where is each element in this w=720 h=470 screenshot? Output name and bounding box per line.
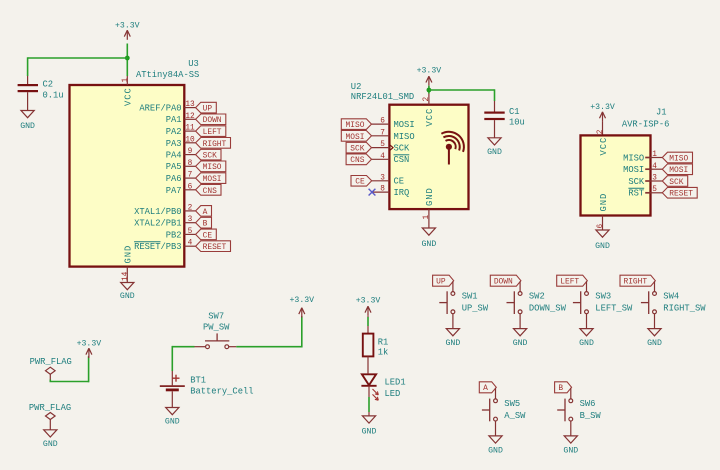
ground under SW1 <box>446 329 459 336</box>
svg-text:UP: UP <box>203 105 213 114</box>
svg-text:MISO: MISO <box>623 153 644 163</box>
wire <box>570 421 572 436</box>
svg-text:GND: GND <box>124 245 134 264</box>
wire <box>654 281 656 291</box>
svg-text:PA2: PA2 <box>166 127 182 137</box>
label RESET <box>662 187 697 198</box>
svg-text:C2: C2 <box>43 80 54 90</box>
U3 pin 13 AREF/PA0 <box>184 107 195 109</box>
svg-text:MOSI: MOSI <box>394 120 415 130</box>
svg-text:GND: GND <box>579 339 594 348</box>
svg-text:CSN: CSN <box>394 155 410 165</box>
J1 pin 5 RST <box>651 192 663 194</box>
U3 pin 14 GND <box>126 267 128 283</box>
label CE <box>351 176 372 187</box>
ground under J1 <box>596 230 609 237</box>
svg-text:A: A <box>203 208 208 217</box>
svg-text:GND: GND <box>425 187 435 206</box>
svg-text:MOSI: MOSI <box>669 166 688 175</box>
svg-text:R1: R1 <box>378 337 389 347</box>
U3 pin 9 PA4 <box>184 154 195 156</box>
svg-text:B_SW: B_SW <box>580 411 602 421</box>
U3 pin 6 PA7 <box>184 189 195 191</box>
svg-text:GND: GND <box>362 427 377 436</box>
svg-text:SW6: SW6 <box>580 399 596 409</box>
svg-text:PA4: PA4 <box>166 151 182 161</box>
wire <box>570 388 572 399</box>
label A <box>196 206 212 217</box>
svg-text:SCK: SCK <box>628 177 645 187</box>
label DOWN <box>490 275 521 286</box>
svg-text:9: 9 <box>188 148 193 156</box>
svg-text:+3.3V: +3.3V <box>356 296 381 305</box>
svg-text:4: 4 <box>380 153 385 161</box>
IC U3 ATtiny84A-SS body <box>70 85 185 267</box>
junction <box>125 56 130 61</box>
ground under SW5 <box>489 436 502 443</box>
svg-text:GND: GND <box>595 242 610 251</box>
wire <box>28 57 128 59</box>
label MISO <box>662 152 692 163</box>
svg-text:VCC: VCC <box>599 137 609 156</box>
U2 pin 2 VCC <box>428 94 430 105</box>
svg-text:+3.3V: +3.3V <box>417 67 442 76</box>
svg-text:IRQ: IRQ <box>394 188 410 198</box>
U3 pin 11 PA2 <box>184 130 195 132</box>
svg-text:6: 6 <box>597 224 605 229</box>
svg-text:CNS: CNS <box>350 156 364 165</box>
label CE <box>196 229 217 240</box>
svg-text:PA1: PA1 <box>166 115 182 125</box>
svg-text:PA6: PA6 <box>166 174 182 184</box>
svg-text:SCK: SCK <box>669 178 683 187</box>
label LEFT <box>557 275 588 286</box>
svg-text:PA7: PA7 <box>166 186 182 196</box>
svg-text:4: 4 <box>188 240 193 248</box>
U2 pin 3 CE <box>372 180 390 182</box>
U2 pin 6 MOSI <box>372 123 390 125</box>
svg-text:5: 5 <box>380 141 385 149</box>
svg-text:SW1: SW1 <box>462 292 478 302</box>
wire <box>367 317 369 326</box>
J1 pin 4 MOSI <box>651 168 663 170</box>
svg-text:3: 3 <box>188 216 193 224</box>
svg-text:10u: 10u <box>509 117 525 127</box>
svg-text:C1: C1 <box>509 107 520 117</box>
svg-text:SW4: SW4 <box>663 292 679 302</box>
svg-text:SW5: SW5 <box>504 399 520 409</box>
svg-text:3: 3 <box>380 174 385 182</box>
svg-text:B: B <box>203 220 208 229</box>
svg-text:RESET: RESET <box>669 190 693 199</box>
wire <box>495 421 497 436</box>
label SCK <box>662 176 687 187</box>
svg-text:14: 14 <box>122 271 130 281</box>
U2 pin 1 GND <box>428 209 430 228</box>
label CNS <box>346 154 371 165</box>
svg-text:B: B <box>558 384 563 393</box>
wire <box>172 346 194 348</box>
label MOSI <box>662 164 692 175</box>
wire <box>126 44 128 77</box>
ground under LED1 <box>362 416 375 423</box>
battery BT1 Battery_Cell <box>171 371 173 385</box>
svg-text:GND: GND <box>20 122 35 131</box>
ground under PWR_FLAG <box>44 430 57 437</box>
wire <box>586 314 588 329</box>
switch SW1 UP_SW <box>446 291 448 314</box>
U2 pin 5 SCK <box>372 147 390 149</box>
svg-text:2: 2 <box>423 97 431 102</box>
svg-text:5: 5 <box>652 186 657 194</box>
svg-text:LED1: LED1 <box>385 378 406 388</box>
U3 pin 10 PA3 <box>184 142 195 144</box>
svg-text:GND: GND <box>422 240 437 249</box>
svg-text:A: A <box>483 384 488 393</box>
label SCK <box>346 142 371 153</box>
svg-text:5: 5 <box>188 228 193 236</box>
U3 pin 3 XTAL2/PB1 <box>184 222 195 224</box>
svg-text:MISO: MISO <box>346 121 365 130</box>
svg-text:CE: CE <box>355 178 365 187</box>
svg-text:6: 6 <box>188 183 193 191</box>
ground under SW6 <box>564 436 577 443</box>
antenna symbol in U2 <box>446 144 452 150</box>
svg-text:MISO: MISO <box>669 154 688 163</box>
svg-text:DOWN_SW: DOWN_SW <box>529 304 567 314</box>
svg-text:RIGHT: RIGHT <box>203 140 227 149</box>
svg-text:UP_SW: UP_SW <box>462 304 489 314</box>
svg-text:PA3: PA3 <box>166 139 182 149</box>
svg-text:UP: UP <box>436 278 446 287</box>
svg-text:13: 13 <box>185 101 195 109</box>
wire <box>519 314 521 329</box>
wire <box>368 386 370 397</box>
svg-text:CE: CE <box>203 231 213 240</box>
ground under BT1 <box>166 408 179 415</box>
label CNS <box>196 185 221 196</box>
svg-text:XTAL1/PB0: XTAL1/PB0 <box>134 207 182 217</box>
ground under C1 <box>488 138 501 145</box>
svg-text:SCK: SCK <box>203 152 217 161</box>
svg-text:RIGHT_SW: RIGHT_SW <box>663 304 706 314</box>
label B <box>196 217 212 228</box>
svg-text:RST: RST <box>628 189 644 199</box>
wire <box>586 281 588 291</box>
U2 pin 8 IRQ <box>373 191 390 193</box>
svg-text:8: 8 <box>380 186 385 194</box>
svg-text:GND: GND <box>43 440 58 449</box>
svg-text:+3.3V: +3.3V <box>290 296 315 305</box>
svg-text:MOSI: MOSI <box>623 165 644 175</box>
svg-text:MOSI: MOSI <box>203 175 222 184</box>
svg-text:CE: CE <box>394 177 405 187</box>
svg-text:AREF/PA0: AREF/PA0 <box>139 104 181 114</box>
label UP <box>196 102 217 113</box>
ground under SW3 <box>580 329 593 336</box>
J1 pin 6 GND <box>602 216 604 231</box>
label A <box>479 382 496 393</box>
U3 pin 4 RESET/PB3 <box>184 245 195 247</box>
svg-text:1: 1 <box>122 78 130 83</box>
wire <box>236 346 301 348</box>
svg-text:GND: GND <box>120 292 135 301</box>
label MOSI <box>196 173 226 184</box>
svg-text:0.1u: 0.1u <box>43 91 64 101</box>
wire <box>654 314 656 329</box>
switch SW6 B_SW <box>564 399 566 422</box>
svg-text:SW7: SW7 <box>208 311 224 321</box>
U3 pin 12 PA1 <box>184 118 195 120</box>
svg-text:RESET: RESET <box>203 243 227 252</box>
svg-text:LED: LED <box>385 389 401 399</box>
svg-text:1: 1 <box>423 215 431 220</box>
U3 pin 2 XTAL1/PB0 <box>184 210 195 212</box>
wire <box>494 89 496 101</box>
wire <box>452 314 454 329</box>
wire <box>602 121 604 135</box>
junction <box>427 88 432 93</box>
ground under C2 <box>21 111 34 118</box>
svg-text:PW_SW: PW_SW <box>203 323 230 333</box>
svg-text:GND: GND <box>647 339 662 348</box>
label RIGHT <box>620 275 655 286</box>
wire <box>452 281 454 291</box>
U2 pin 4 CSN <box>372 158 390 160</box>
IC U2 NRF24L01_SMD body <box>389 105 468 209</box>
svg-text:J1: J1 <box>656 107 667 117</box>
svg-text:PB2: PB2 <box>166 230 182 240</box>
svg-text:A_SW: A_SW <box>504 411 526 421</box>
ground under U2 <box>422 228 435 235</box>
U3 pin 7 PA6 <box>184 177 195 179</box>
label RIGHT <box>196 138 231 149</box>
svg-text:+3.3V: +3.3V <box>115 21 140 30</box>
svg-text:6: 6 <box>380 118 385 126</box>
svg-text:10: 10 <box>185 136 195 144</box>
svg-text:8: 8 <box>188 160 193 168</box>
wire <box>171 391 173 407</box>
capacitor C2 <box>27 76 29 84</box>
svg-text:1: 1 <box>652 151 657 159</box>
svg-text:AVR-ISP-6: AVR-ISP-6 <box>622 119 670 129</box>
label UP <box>433 275 454 286</box>
svg-text:SW3: SW3 <box>595 292 611 302</box>
svg-text:PA5: PA5 <box>166 162 182 172</box>
U3 pin 5 PB2 <box>184 233 195 235</box>
switch SW2 DOWN_SW <box>513 291 515 314</box>
svg-text:VCC: VCC <box>425 108 435 127</box>
svg-text:ATtiny84A-SS: ATtiny84A-SS <box>136 70 199 80</box>
svg-text:7: 7 <box>380 129 385 137</box>
label MISO <box>341 119 371 130</box>
wire <box>27 92 29 110</box>
no-connect X on IRQ <box>369 189 376 196</box>
svg-text:2: 2 <box>597 129 605 134</box>
svg-text:RESET/PB3: RESET/PB3 <box>134 242 182 252</box>
ground under SW2 <box>514 329 527 336</box>
svg-text:LEFT: LEFT <box>560 278 579 287</box>
svg-text:CNS: CNS <box>203 187 217 196</box>
svg-text:GND: GND <box>599 193 609 212</box>
svg-text:GND: GND <box>165 417 180 426</box>
svg-text:SCK: SCK <box>350 145 364 154</box>
svg-text:PWR_FLAG: PWR_FLAG <box>30 357 72 367</box>
svg-text:PWR_FLAG: PWR_FLAG <box>29 403 71 413</box>
svg-text:RIGHT: RIGHT <box>623 278 647 287</box>
svg-text:VCC: VCC <box>124 87 134 106</box>
switch SW4 RIGHT_SW <box>648 291 650 314</box>
label LEFT <box>196 126 226 137</box>
ground under SW4 <box>648 329 661 336</box>
svg-text:GND: GND <box>487 148 502 157</box>
label SCK <box>196 149 221 160</box>
svg-text:SW2: SW2 <box>529 292 545 302</box>
connector J1 AVR-ISP-6 body <box>581 135 651 215</box>
svg-text:12: 12 <box>185 113 195 121</box>
svg-text:NRF24L01_SMD: NRF24L01_SMD <box>351 92 414 102</box>
J1 pin 1 MISO <box>651 157 663 159</box>
U3 pin 1 VCC <box>126 76 128 85</box>
ground under U3 <box>121 283 134 290</box>
svg-text:GND: GND <box>563 446 578 455</box>
svg-text:2: 2 <box>188 204 193 212</box>
label MOSI <box>341 131 371 142</box>
svg-text:LEFT_SW: LEFT_SW <box>595 304 633 314</box>
LED D1 LED1 <box>362 374 376 385</box>
svg-text:LEFT: LEFT <box>203 128 222 137</box>
wire <box>519 281 521 291</box>
resistor R1 1k <box>367 326 369 334</box>
svg-text:7: 7 <box>188 172 193 180</box>
svg-text:GND: GND <box>446 339 461 348</box>
label DOWN <box>196 114 226 125</box>
svg-text:11: 11 <box>185 125 195 133</box>
svg-text:GND: GND <box>513 339 528 348</box>
wire <box>428 86 430 94</box>
wire <box>367 356 369 373</box>
label RESET <box>196 241 231 252</box>
svg-text:XTAL2/PB1: XTAL2/PB1 <box>134 219 182 229</box>
svg-text:GND: GND <box>488 446 503 455</box>
svg-text:BT1: BT1 <box>190 376 206 386</box>
svg-text:MOSI: MOSI <box>346 133 365 142</box>
label B <box>555 382 572 393</box>
svg-text:DOWN: DOWN <box>494 278 513 287</box>
svg-text:4: 4 <box>652 163 657 171</box>
svg-text:SCK: SCK <box>394 144 411 154</box>
wire <box>49 380 51 382</box>
wire <box>429 89 495 91</box>
svg-text:U2: U2 <box>351 82 362 92</box>
svg-text:MISO: MISO <box>203 163 222 172</box>
svg-text:+3.3V: +3.3V <box>590 103 615 112</box>
svg-text:+3.3V: +3.3V <box>77 339 102 348</box>
U2 pin 7 MISO <box>372 135 390 137</box>
wire <box>495 388 497 399</box>
svg-text:DOWN: DOWN <box>203 116 222 125</box>
svg-text:1k: 1k <box>378 348 389 358</box>
capacitor C1 <box>494 101 496 112</box>
U3 pin 8 PA5 <box>184 165 195 167</box>
switch SW3 LEFT_SW <box>580 291 582 314</box>
switch SW5 A_SW <box>489 399 491 422</box>
label MISO <box>196 161 226 172</box>
svg-text:U3: U3 <box>188 59 199 69</box>
J1 pin 3 SCK <box>651 180 663 182</box>
svg-text:Battery_Cell: Battery_Cell <box>190 387 253 397</box>
svg-text:MISO: MISO <box>394 132 415 142</box>
wire <box>494 120 496 138</box>
svg-text:3: 3 <box>652 175 657 183</box>
wire <box>27 57 29 76</box>
